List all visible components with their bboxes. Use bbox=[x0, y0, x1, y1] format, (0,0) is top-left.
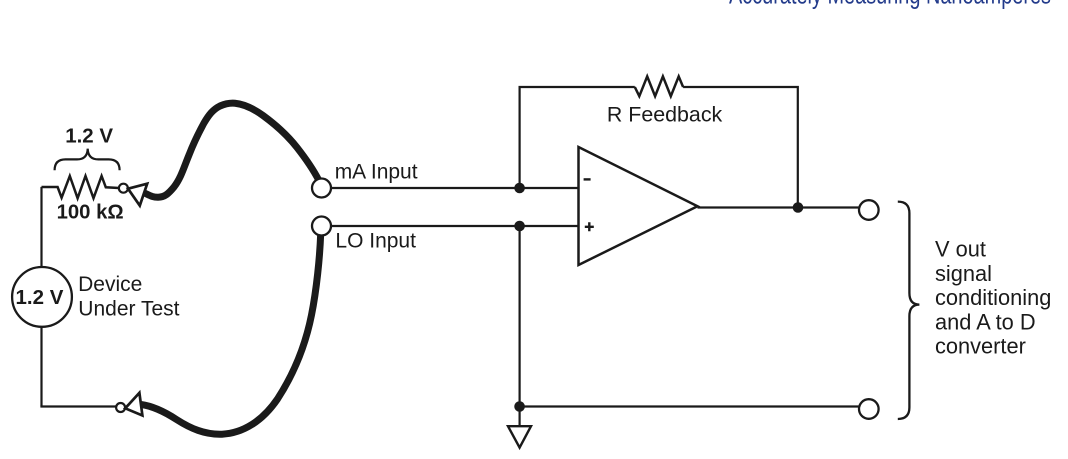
wire: bottom-left horizontal to probe circle bbox=[40, 405, 116, 407]
ground triangle bbox=[508, 426, 531, 447]
test lead cable (top, to mA Input) bbox=[144, 103, 319, 197]
wire: feedback top right segment bbox=[683, 87, 798, 208]
ground stub wire bbox=[518, 407, 520, 427]
wire: LO input to op-amp plus bbox=[331, 225, 579, 227]
svg-text:Under Test: Under Test bbox=[78, 297, 179, 320]
brace over resistor bbox=[55, 149, 120, 171]
wire: left vertical from source bottom down bbox=[40, 328, 42, 407]
wire: feedback left vertical bbox=[520, 87, 635, 188]
junction dot at plus input bbox=[514, 221, 525, 232]
junction dot at ground rail bbox=[514, 401, 525, 412]
op-amp triangle U1 bbox=[579, 147, 698, 265]
terminal circle mA Input bbox=[312, 179, 331, 198]
svg-text:Device: Device bbox=[78, 273, 142, 296]
brace right of output terminals bbox=[898, 202, 920, 419]
voltage source circle bbox=[12, 267, 72, 327]
svg-text:V out: V out bbox=[935, 237, 986, 262]
junction dot at output bbox=[793, 202, 804, 213]
junction dot at minus input bbox=[514, 183, 525, 194]
resistor R Feedback zigzag bbox=[635, 76, 683, 96]
probe contact circle (bottom) bbox=[116, 403, 125, 412]
wire: left vertical from resistor to source top bbox=[40, 187, 42, 267]
wire: op-amp output bbox=[698, 206, 859, 208]
svg-text:signal: signal bbox=[935, 261, 992, 286]
wire: bottom rail to output terminal bbox=[520, 405, 859, 407]
svg-text:mA Input: mA Input bbox=[335, 160, 418, 183]
op-amp minus sign bbox=[584, 178, 591, 180]
svg-text:1.2 V: 1.2 V bbox=[16, 286, 64, 309]
op-amp plus sign bbox=[585, 222, 594, 231]
probe tip triangle (bottom) bbox=[125, 393, 142, 416]
svg-text:LO Input: LO Input bbox=[335, 229, 416, 252]
wire: mA input to op-amp minus bbox=[331, 187, 579, 189]
svg-text:Accurately Measuring Nanoamper: Accurately Measuring Nanoamperes bbox=[729, 0, 1051, 10]
probe contact circle at resistor bbox=[119, 184, 128, 193]
svg-text:conditioning: conditioning bbox=[935, 285, 1051, 310]
resistor R 100k zigzag bbox=[42, 176, 119, 198]
test lead cable (bottom, to LO Input) bbox=[141, 234, 321, 435]
svg-text:converter: converter bbox=[935, 334, 1026, 359]
terminal circle V out top bbox=[859, 200, 879, 220]
terminal circle LO Input bbox=[312, 217, 331, 236]
svg-text:100 kΩ: 100 kΩ bbox=[57, 202, 124, 224]
svg-text:R Feedback: R Feedback bbox=[607, 102, 723, 126]
wire: LO node down to ground rail bbox=[518, 226, 520, 407]
svg-text:and A to D: and A to D bbox=[935, 309, 1036, 334]
terminal circle V out bottom bbox=[859, 399, 879, 419]
probe tip triangle (top) bbox=[128, 184, 147, 206]
svg-text:1.2 V: 1.2 V bbox=[65, 125, 113, 148]
